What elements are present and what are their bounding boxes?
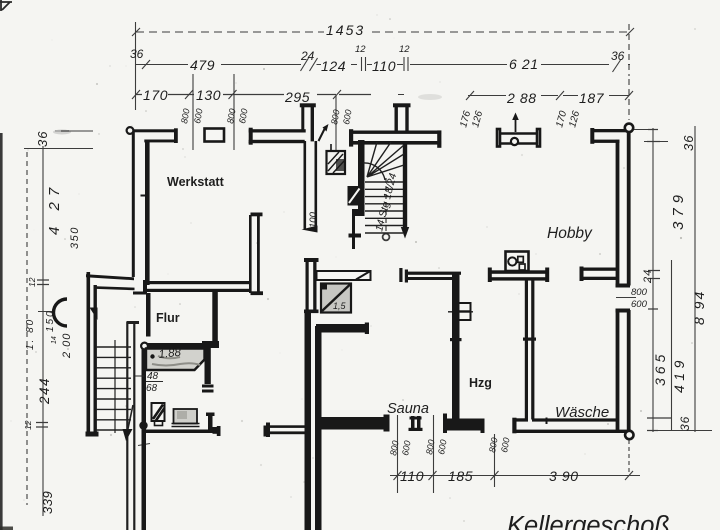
svg-text:600: 600 <box>631 299 648 310</box>
svg-text:36: 36 <box>678 416 692 431</box>
svg-text:339: 339 <box>40 491 55 514</box>
svg-text:1,5: 1,5 <box>333 301 347 311</box>
svg-text:187: 187 <box>579 90 605 106</box>
svg-text:2 00: 2 00 <box>61 333 73 359</box>
svg-text:110: 110 <box>372 58 396 74</box>
svg-text:185: 185 <box>448 468 473 484</box>
svg-text:379: 379 <box>670 190 687 230</box>
svg-text:100: 100 <box>308 211 319 228</box>
svg-text:124: 124 <box>321 58 346 74</box>
svg-text:130: 130 <box>196 87 221 103</box>
svg-text:110: 110 <box>400 468 424 484</box>
svg-text:365: 365 <box>652 351 668 386</box>
svg-text:12: 12 <box>355 44 366 55</box>
svg-text:36: 36 <box>130 47 144 61</box>
svg-text:36: 36 <box>35 131 50 147</box>
svg-text:1. 80: 1. 80 <box>25 318 36 350</box>
svg-text:6 21: 6 21 <box>509 56 539 72</box>
svg-text:4 27: 4 27 <box>46 182 63 235</box>
svg-text:419: 419 <box>671 356 687 393</box>
svg-text:24: 24 <box>300 49 315 63</box>
svg-text:Sauna: Sauna <box>387 401 429 417</box>
svg-text:Hobby: Hobby <box>547 225 593 242</box>
svg-text:3 90: 3 90 <box>549 468 579 484</box>
svg-text:1453: 1453 <box>326 22 365 38</box>
svg-text:295: 295 <box>284 89 310 105</box>
svg-text:14: 14 <box>51 336 58 344</box>
svg-text:1.88: 1.88 <box>158 347 182 361</box>
svg-text:Kellergeschoß: Kellergeschoß <box>507 512 670 530</box>
svg-text:68: 68 <box>146 383 158 394</box>
svg-text:2 88: 2 88 <box>506 90 537 106</box>
svg-text:Werkstatt: Werkstatt <box>167 175 225 189</box>
svg-text:8 94: 8 94 <box>691 290 707 325</box>
svg-text:36: 36 <box>681 135 696 151</box>
svg-text:24: 24 <box>642 269 654 284</box>
svg-text:150: 150 <box>45 309 56 332</box>
svg-text:12: 12 <box>399 44 410 55</box>
svg-text:800: 800 <box>631 287 648 298</box>
svg-text:12: 12 <box>23 420 33 430</box>
svg-text:Wäsche: Wäsche <box>555 404 609 421</box>
svg-text:170: 170 <box>143 87 168 103</box>
svg-text:350: 350 <box>69 226 81 249</box>
svg-text:12: 12 <box>27 277 37 287</box>
svg-text:48: 48 <box>147 371 159 382</box>
svg-text:479: 479 <box>190 57 215 73</box>
svg-text:Flur: Flur <box>156 311 180 325</box>
svg-text:Hzg: Hzg <box>469 376 492 390</box>
svg-text:36: 36 <box>611 49 625 63</box>
svg-text:244: 244 <box>37 377 52 405</box>
